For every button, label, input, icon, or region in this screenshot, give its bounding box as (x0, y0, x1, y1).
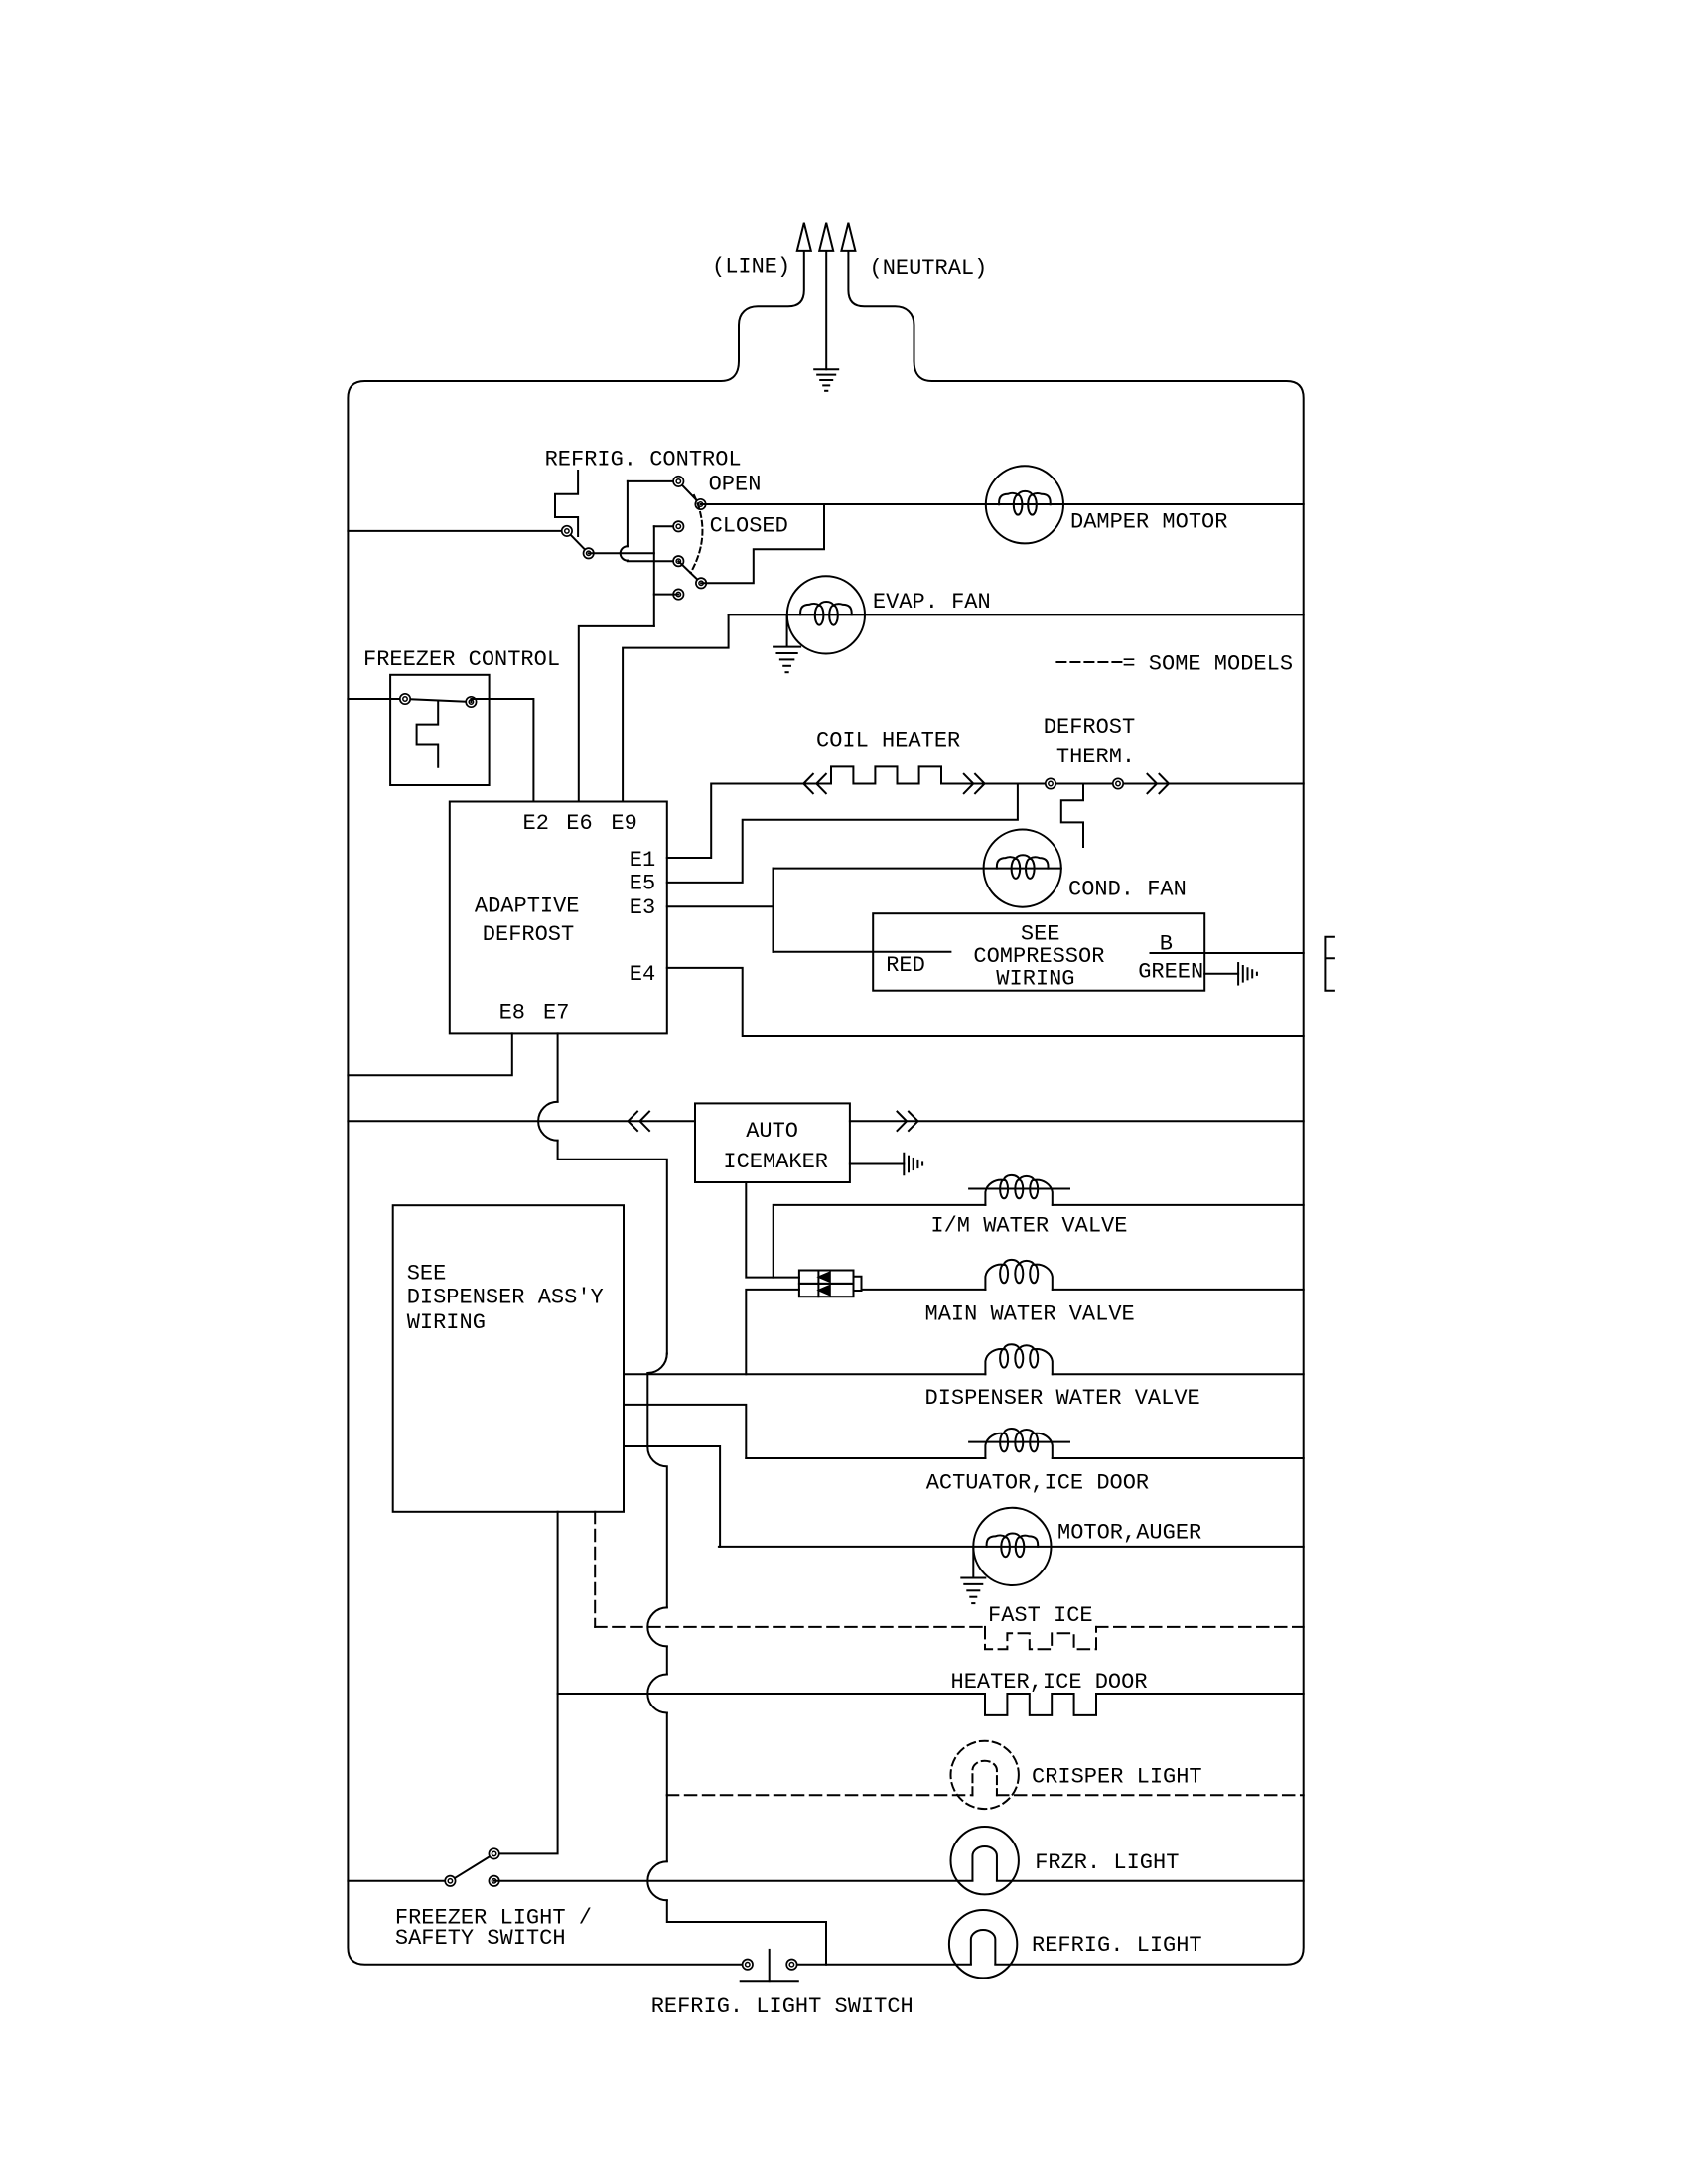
hop over arm wire (621, 546, 628, 560)
wire long vertical between crisper and freezer light (666, 1795, 668, 1861)
svg-text:E1: E1 (630, 848, 655, 873)
svg-text:SAFETY SWITCH: SAFETY SWITCH (395, 1926, 566, 1951)
svg-text:FREEZER CONTROL: FREEZER CONTROL (363, 647, 560, 672)
wire defrost therm drop to E5 (667, 784, 1018, 883)
terminal CLOSED contact (673, 521, 683, 531)
svg-text:CRISPER LIGHT: CRISPER LIGHT (1032, 1765, 1202, 1790)
wire E4 to bottom bus (667, 968, 1304, 1036)
svg-text:DEFROST: DEFROST (483, 922, 574, 947)
refrig control lower arm (678, 561, 701, 583)
wire heater ice door line right (1096, 1693, 1304, 1695)
terminal defrost therm left (1046, 778, 1055, 788)
auto icemaker box (695, 1103, 850, 1182)
terminal safety switch left (445, 1876, 455, 1886)
svg-text:E5: E5 (630, 871, 655, 895)
frzr light lamp (951, 1827, 1019, 1894)
wire dispenser box to actuator feed (624, 1405, 746, 1458)
svg-text:DEFROST: DEFROST (1044, 715, 1135, 740)
svg-text:GREEN: GREEN (1138, 960, 1203, 985)
safety switch arm (450, 1853, 493, 1880)
ground prong stem (825, 251, 827, 369)
wire long vertical bottom segment (667, 1900, 826, 1964)
evap fan ground stem (786, 614, 788, 645)
wire E7 drop upper segment (557, 1033, 559, 1101)
refrig control switch arm (common) (567, 531, 589, 553)
terminal freezer control right (466, 697, 476, 707)
wire main valve to right border (1053, 1289, 1304, 1291)
hop long vertical over fast ice line (647, 1607, 667, 1646)
damper motor (986, 466, 1063, 543)
auger ground stem (972, 1547, 974, 1577)
svg-text:COMPRESSOR: COMPRESSOR (973, 944, 1104, 969)
check valve body lower (799, 1284, 854, 1297)
wire refrig control bus to E6 drop (579, 626, 654, 802)
svg-text:AUTO: AUTO (746, 1119, 798, 1144)
refrig light switch bar (741, 1980, 798, 1982)
terminal OPEN output (695, 499, 705, 509)
long vertical S-jog around valve rows (647, 1354, 667, 1608)
terminal defrost therm right (1113, 778, 1123, 788)
svg-text:DAMPER MOTOR: DAMPER MOTOR (1070, 510, 1227, 535)
compressor wiring box (873, 913, 1204, 991)
terminal row3 contact (673, 556, 683, 566)
hop E7 over icemaker wire (538, 1102, 558, 1141)
prong tip (NEUTRAL) (841, 223, 855, 251)
terminal refrig light switch left (743, 1960, 753, 1970)
wire red lead into compressor box (774, 951, 951, 953)
svg-text:HEATER,ICE DOOR: HEATER,ICE DOOR (951, 1670, 1148, 1695)
terminal freezer control left (400, 694, 410, 704)
freezer control switch arm (405, 699, 471, 702)
wire dispenser box to dispenser valve (624, 1373, 985, 1375)
refrig light switch actuator (769, 1950, 771, 1981)
svg-text:OPEN: OPEN (709, 473, 762, 497)
wire E1 to coil heater line (667, 784, 831, 859)
terminal refrig control arm end (584, 548, 594, 558)
svg-text:MOTOR,AUGER: MOTOR,AUGER (1057, 1521, 1201, 1546)
dispenser assembly box (393, 1205, 624, 1512)
wire icemaker to right border (850, 1120, 1304, 1122)
refrig control OPEN arm (678, 481, 700, 504)
fast ice heater element dashed (985, 1627, 1096, 1649)
wire damper motor line (701, 503, 1304, 505)
earth ground symbol at plug (814, 368, 838, 370)
refrig light lamp (949, 1910, 1017, 1978)
svg-text:WIRING: WIRING (407, 1310, 486, 1335)
wire fast ice dashed line left (595, 1626, 985, 1628)
connector chevrons >> after icemaker (898, 1112, 908, 1131)
connector chevrons << at icemaker (629, 1112, 638, 1131)
wire heater ice door line left (558, 1693, 985, 1695)
evap fan motor (787, 576, 865, 653)
wire E3 to compressor red (667, 905, 774, 907)
refrig control contact bus vertical (653, 526, 655, 626)
wire bottom border segment switch to refrig lamp (791, 1964, 970, 1966)
check valve divider lower (817, 1284, 819, 1297)
I/M water valve coil (985, 1175, 1052, 1205)
wire main valve branch down (746, 1290, 799, 1374)
svg-text:E6: E6 (566, 811, 592, 836)
wire I/M valve to right border (1053, 1204, 1304, 1206)
coil heater element (831, 766, 941, 783)
wire hop bottom to row3 contact (628, 560, 678, 563)
check valve arrow lower (819, 1286, 830, 1295)
wire cond fan branch vertical (773, 869, 774, 952)
legend dashed sample line (1056, 661, 1122, 663)
svg-text:REFRIG. LIGHT SWITCH: REFRIG. LIGHT SWITCH (651, 1994, 914, 2019)
adaptive defrost control box (450, 802, 667, 1034)
wire frzr light line left (494, 1880, 973, 1882)
prong tip (LINE) (797, 223, 811, 251)
power plug prong (LINE) with left half of outer border (348, 251, 803, 1965)
wire dispenser box to auger drop (624, 1446, 720, 1547)
wire top to OPEN contact (628, 480, 678, 482)
svg-text:ACTUATOR,ICE DOOR: ACTUATOR,ICE DOOR (926, 1470, 1149, 1495)
svg-text:THERM.: THERM. (1056, 745, 1135, 769)
svg-text:DISPENSER ASS'Y: DISPENSER ASS'Y (407, 1286, 604, 1310)
wire green lead to chassis ground (1204, 973, 1238, 975)
wire arm to vertical bus (589, 552, 654, 554)
svg-text:E2: E2 (523, 811, 549, 836)
chassis ground at compressor green (1237, 963, 1239, 985)
hop long vertical over frzr light line (647, 1861, 667, 1900)
wire lower output steps to damper line (701, 504, 824, 583)
prong tip (ground) (819, 223, 833, 251)
svg-text:DISPENSER WATER VALVE: DISPENSER WATER VALVE (925, 1386, 1200, 1411)
wire left border to auto icemaker (348, 1120, 695, 1122)
svg-text:I/M WATER VALVE: I/M WATER VALVE (930, 1213, 1127, 1238)
terminal OPEN fixed contact (673, 477, 683, 486)
chassis ground at icemaker (903, 1154, 905, 1175)
connector chevrons >> after coil heater (964, 774, 974, 793)
wire frzr light line right (997, 1880, 1304, 1882)
terminal refrig control common (562, 526, 572, 536)
ground symbol at auger motor (961, 1577, 985, 1579)
wire icemaker down to check valve (746, 1182, 799, 1278)
wire dispenser box to safety switch (494, 1512, 558, 1854)
wire auger motor line (719, 1546, 1304, 1548)
freezer control thermostat zigzag (417, 701, 439, 767)
svg-text:FRZR. LIGHT: FRZR. LIGHT (1035, 1850, 1179, 1875)
hop long vertical over heater line (647, 1675, 667, 1713)
heater ice door element (985, 1694, 1096, 1715)
wire I/M valve feed (774, 1205, 986, 1278)
wire evap fan to E9 drop (623, 614, 729, 801)
connector bracket outside right border (1325, 937, 1334, 991)
crisper light lamp dashed (951, 1741, 1019, 1809)
svg-text:E8: E8 (499, 1000, 525, 1024)
svg-text:EVAP. FAN: EVAP. FAN (873, 590, 991, 614)
wire row4 contact to bus (654, 594, 679, 596)
terminal refrig light switch right (786, 1960, 796, 1970)
wire icemaker ground lead (850, 1163, 904, 1165)
svg-text:E3: E3 (630, 895, 655, 920)
defrost therm bellows step (1061, 784, 1083, 848)
check valve outlet tab (854, 1277, 862, 1291)
svg-text:FAST ICE: FAST ICE (988, 1603, 1093, 1628)
connector chevrons << at coil heater (803, 774, 813, 793)
cond fan motor (984, 830, 1061, 907)
svg-text:E4: E4 (630, 962, 655, 987)
connector chevrons >> after defrost therm (1148, 774, 1158, 793)
svg-text:(NEUTRAL): (NEUTRAL) (870, 256, 988, 281)
wire left border to safety switch (348, 1880, 450, 1882)
svg-text:ICEMAKER: ICEMAKER (723, 1150, 828, 1174)
wire evap fan line (729, 614, 1304, 615)
check valve body upper (799, 1271, 854, 1284)
wire left border to refrig control common (348, 530, 567, 532)
svg-text:COIL HEATER: COIL HEATER (816, 729, 960, 753)
wire E8 to left border (348, 1033, 511, 1075)
auger motor (973, 1508, 1051, 1585)
wire actuator bus (746, 1457, 985, 1459)
wire left border to freezer control (348, 698, 405, 700)
svg-text:E9: E9 (611, 811, 636, 836)
wire dispenser box dashed drop (594, 1512, 596, 1627)
wire dispenser valve to right border (1053, 1373, 1304, 1375)
wire long vertical between heater and crisper (666, 1713, 668, 1796)
power plug prong (NEUTRAL) with right half of outer border (848, 251, 1303, 1965)
dashed travel arc of refrig control (691, 495, 703, 573)
svg-text:COND. FAN: COND. FAN (1068, 878, 1187, 902)
terminal row4 contact (673, 589, 683, 599)
wire freezer control to E2 (471, 699, 533, 802)
wire CLOSED contact to bus (654, 525, 679, 527)
wire long vertical between fast ice and heater (666, 1646, 668, 1674)
wire check valve to main valve (862, 1289, 986, 1291)
wire cond fan line (774, 868, 1061, 870)
svg-text:SEE: SEE (1021, 922, 1060, 947)
svg-text:REFRIG. LIGHT: REFRIG. LIGHT (1032, 1933, 1202, 1958)
svg-text:MAIN WATER VALVE: MAIN WATER VALVE (925, 1302, 1135, 1327)
main water valve coil (985, 1260, 1052, 1290)
wire vertical from OPEN contact down (627, 481, 629, 546)
wire crisper light dashed line left (667, 1794, 973, 1796)
wire B lead to right border (1151, 952, 1304, 954)
refrig control linkage zigzag (555, 471, 578, 536)
wire fast ice dashed line right (1096, 1626, 1304, 1628)
check valve arrow upper (819, 1273, 830, 1282)
dispenser water valve coil (985, 1344, 1052, 1374)
svg-text:E7: E7 (543, 1000, 569, 1024)
check valve divider upper (817, 1271, 819, 1284)
terminal safety switch right (489, 1876, 498, 1886)
terminal lower output (696, 578, 706, 588)
svg-text:= SOME MODELS: = SOME MODELS (1122, 651, 1293, 676)
svg-text:(LINE): (LINE) (712, 254, 790, 279)
svg-text:REFRIG. CONTROL: REFRIG. CONTROL (545, 448, 742, 473)
svg-text:CLOSED: CLOSED (710, 514, 788, 539)
ground symbol at evap fan (774, 646, 800, 648)
wire E7 drop to long vertical (558, 1141, 667, 1354)
svg-text:WIRING: WIRING (996, 967, 1074, 992)
actuator ice door coil (985, 1429, 1052, 1458)
terminal safety switch upper (489, 1848, 498, 1858)
svg-text:SEE: SEE (407, 1261, 447, 1286)
svg-text:RED: RED (886, 953, 925, 978)
wire coil heater to defrost therm (941, 783, 1304, 785)
wire crisper light dashed line right (997, 1794, 1304, 1796)
wire actuator to right border (1053, 1457, 1304, 1459)
svg-text:ADAPTIVE: ADAPTIVE (475, 894, 580, 919)
freezer control box (390, 675, 490, 785)
